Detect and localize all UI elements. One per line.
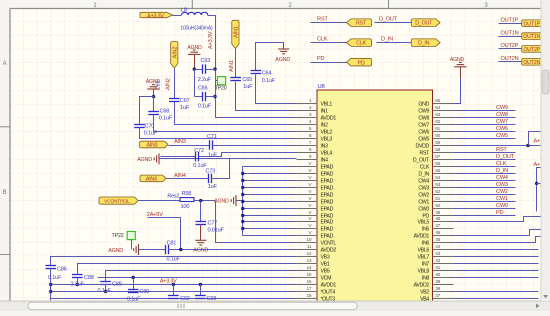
pin 45 IN6 (right) — [433, 242, 454, 244]
svg-text:VCM: VCM — [321, 276, 332, 282]
pin V EPAD (left) — [297, 187, 318, 189]
svg-text:D_IN: D_IN — [418, 41, 430, 47]
pin V EPAD (left) — [297, 173, 318, 175]
wire row 25 right — [454, 277, 539, 279]
capacitor C86 — [46, 266, 57, 269]
svg-text:VBL4: VBL4 — [321, 151, 333, 157]
pin 39 AVDD2 (right) — [433, 284, 454, 286]
svg-text:IN3: IN3 — [321, 144, 329, 150]
svg-text:CW5: CW5 — [418, 137, 429, 143]
svg-text:AVDD2: AVDD2 — [321, 248, 337, 254]
capacitor C68 — [148, 112, 159, 115]
wire left vertical C63-C66 — [194, 70, 196, 97]
pin 57 D_OUT (right) — [433, 159, 454, 161]
inductor L8 — [182, 12, 208, 15]
net flag AIN2 — [171, 42, 178, 69]
horizontal scrollbar right arrow — [536, 304, 540, 309]
svg-text:AIN1: AIN1 — [229, 60, 235, 72]
svg-text:IN5: IN5 — [422, 227, 430, 233]
svg-text:65: 65 — [435, 98, 440, 104]
svg-text:0.1uF: 0.1uF — [262, 78, 276, 84]
svg-text:18: 18 — [307, 293, 312, 299]
wire net CLK — [454, 166, 516, 168]
wire C63 row — [195, 69, 203, 71]
wire D_IN — [377, 42, 412, 44]
svg-text:D_IN: D_IN — [496, 168, 508, 174]
wire C67 to IN2 row — [175, 102, 297, 125]
node junction C86 col row17 — [49, 290, 52, 293]
port OUT1N — [522, 33, 546, 40]
capacitor C90 — [133, 278, 135, 290]
pin 41 VBL8 (right) — [433, 270, 454, 272]
svg-text:50: 50 — [435, 203, 440, 209]
wire CLK — [311, 42, 347, 44]
svg-text:57: 57 — [435, 154, 440, 160]
pin V EPAD (left) — [297, 194, 318, 196]
svg-text:55: 55 — [435, 168, 440, 174]
svg-text:100: 100 — [181, 204, 190, 210]
wire AGND node left — [140, 97, 154, 125]
node EPAD junction 3 — [241, 179, 244, 182]
wire net CW1 — [454, 201, 516, 203]
pin 63 CW8 (right) — [433, 117, 454, 119]
pin 46 AVDD1 (right) — [433, 235, 454, 237]
wire EPAD stub row 10 — [243, 228, 297, 230]
svg-text:PD: PD — [317, 56, 325, 62]
pin 38 VB2 (right) — [433, 291, 454, 293]
pin 2 IN1 (left) — [297, 110, 318, 112]
svg-text:OUT1P: OUT1P — [501, 17, 519, 23]
pin 49 PD (right) — [433, 215, 454, 217]
pin V EPAD (left) — [297, 215, 318, 217]
pin 60 CW5 (right) — [433, 138, 454, 140]
svg-text:VBL3: VBL3 — [321, 137, 333, 143]
wire PD — [311, 62, 347, 64]
capacitor C63 — [203, 64, 206, 73]
svg-text:EPAD: EPAD — [321, 234, 334, 240]
pin 11 AVDD2 (left) — [297, 249, 318, 251]
svg-text:VBL2: VBL2 — [321, 130, 333, 136]
svg-text:A: A — [3, 61, 7, 67]
wire C72 branch — [161, 156, 196, 158]
node junction R58/C77 — [199, 199, 202, 202]
svg-text:VCONTROL: VCONTROL — [104, 199, 130, 205]
port D_OUT — [411, 19, 440, 27]
svg-text:CLK: CLK — [317, 36, 328, 42]
wire AIN2 down to C67 — [174, 69, 176, 99]
wire OUT1N — [499, 36, 522, 38]
wire EPAD bus vertical — [242, 167, 244, 236]
svg-text:EPAD: EPAD — [321, 227, 334, 233]
wire net CW6 — [454, 131, 516, 133]
pin 50 CW0 (right) — [433, 208, 454, 210]
svg-text:C66: C66 — [198, 86, 208, 92]
svg-text:OUT2P: OUT2P — [523, 47, 540, 53]
svg-text:AGND: AGND — [108, 248, 123, 254]
svg-text:B: B — [3, 190, 7, 196]
pin 16 AVDD1 (left) — [297, 284, 318, 286]
capacitor C92 — [173, 285, 175, 296]
svg-text:VBL8: VBL8 — [418, 269, 430, 275]
pin 9 IN4 (left) — [297, 159, 318, 161]
svg-text:*OUT4: *OUT4 — [321, 290, 336, 296]
pin V EPAD (left) — [297, 201, 318, 203]
wire net CW2 — [454, 194, 516, 196]
svg-text:OUT2N: OUT2N — [501, 56, 519, 62]
wire net CW8 — [454, 117, 516, 119]
pin V EPAD (left) — [297, 166, 318, 168]
svg-text:52: 52 — [435, 189, 440, 195]
pin 51 CW1 (right) — [433, 201, 454, 203]
resistor R58 — [180, 198, 194, 202]
horizontal scrollbar thumb — [28, 302, 357, 309]
wire C68 to VBL2 row — [154, 115, 297, 132]
wire IN6-45 step — [454, 237, 541, 243]
svg-text:C67: C67 — [180, 98, 190, 104]
port D_IN — [411, 39, 440, 47]
pin 59 DVDD (right) — [433, 145, 454, 147]
pin V EPAD (left) — [297, 180, 318, 182]
svg-text:51: 51 — [435, 196, 440, 202]
svg-text:AIN3: AIN3 — [174, 139, 186, 145]
pin 6 VBL3 (left) — [297, 138, 318, 140]
pin V EPAD (left) — [297, 235, 318, 237]
pin 37 VB4 (right) — [433, 298, 454, 300]
wire row 23 right — [454, 263, 539, 265]
svg-text:63: 63 — [435, 112, 440, 118]
svg-text:IN6: IN6 — [422, 241, 430, 247]
node EPAD junction 10 — [241, 227, 244, 230]
svg-text:CLK: CLK — [496, 161, 507, 167]
wire AVDD1-46 step — [454, 230, 541, 236]
pin 4 IN2 (left) — [297, 124, 318, 126]
svg-text:OUT2N: OUT2N — [523, 60, 540, 66]
svg-text:GND: GND — [418, 102, 429, 108]
svg-text:38: 38 — [435, 286, 440, 292]
svg-text:16: 16 — [307, 279, 312, 285]
wire EPAD stub row 9 — [243, 221, 297, 223]
svg-text:CW1: CW1 — [418, 200, 429, 206]
wire C64 to VBL1 row — [256, 75, 297, 104]
wire AGND row9 to riser — [160, 158, 230, 160]
wire EPAD stub row 6 — [243, 201, 297, 203]
wire EPAD stub row 2 — [243, 173, 297, 175]
wire C66 row — [195, 96, 203, 98]
svg-text:AGND: AGND — [275, 57, 290, 63]
svg-text:RST: RST — [420, 151, 431, 157]
svg-text:VCNTL: VCNTL — [321, 241, 337, 247]
net flag AIN3 — [140, 141, 169, 148]
svg-text:1uF: 1uF — [243, 84, 253, 90]
pin 18 *OUT3 (left) — [297, 298, 318, 300]
svg-text:IN2: IN2 — [321, 123, 329, 129]
svg-text:AGND: AGND — [137, 157, 152, 163]
wire VB-row17 — [51, 291, 297, 293]
pin 13 VB1 (left) — [297, 263, 318, 265]
pin 61 CW6 (right) — [433, 131, 454, 133]
svg-text:EPAD: EPAD — [321, 193, 334, 199]
wire AIN1 down to C65 — [235, 49, 237, 78]
svg-text:VB3: VB3 — [321, 255, 330, 261]
wire C71 to IN3 pin — [213, 145, 297, 147]
wire VCM row — [98, 277, 297, 279]
svg-text:C63: C63 — [201, 58, 211, 64]
svg-text:39: 39 — [435, 279, 440, 285]
wire AGND stub to bus — [237, 200, 243, 202]
wire C73 riser to row9 — [213, 159, 230, 179]
svg-text:R58: R58 — [182, 191, 192, 197]
svg-text:0.1uF: 0.1uF — [159, 115, 173, 121]
svg-text:C64: C64 — [262, 71, 272, 77]
svg-text:1uF: 1uF — [208, 152, 218, 158]
wire net D_OUT — [454, 159, 516, 161]
wire VB1 row from C88 — [78, 264, 297, 275]
svg-text:11: 11 — [307, 244, 312, 250]
wire A+3.3V vertical to AVDD1 row — [216, 70, 297, 118]
wire row 24 right — [454, 270, 539, 272]
net flag AIN4 — [140, 175, 166, 182]
node EPAD junction 4 — [241, 186, 244, 189]
svg-text:54: 54 — [435, 175, 440, 181]
svg-text:IN4: IN4 — [321, 158, 329, 164]
pin 17 *OUT4 (left) — [297, 291, 318, 293]
svg-text:42: 42 — [435, 258, 440, 264]
svg-text:37: 37 — [435, 293, 440, 299]
node EPAD junction 2 — [241, 172, 244, 175]
svg-text:AIN2: AIN2 — [165, 78, 171, 90]
pin 62 CW7 (right) — [433, 124, 454, 126]
port OUT1P — [522, 20, 546, 27]
capacitor C71 — [210, 140, 213, 149]
svg-text:C68: C68 — [160, 109, 170, 115]
svg-text:58: 58 — [435, 147, 440, 153]
svg-text:AVDD1: AVDD1 — [321, 283, 337, 289]
wire EPAD stub row 3 — [243, 180, 297, 182]
svg-text:AIN2: AIN2 — [173, 47, 179, 59]
pin 42 IN7 (right) — [433, 263, 454, 265]
svg-text:13: 13 — [307, 258, 312, 264]
svg-text:53: 53 — [435, 182, 440, 188]
wire row18 — [51, 298, 297, 300]
svg-text:C86: C86 — [57, 267, 67, 273]
wire inductor to A+3.3V rail corner — [208, 16, 216, 70]
svg-text:D_OUT: D_OUT — [413, 158, 430, 164]
pin 54 CW4 (right) — [433, 180, 454, 182]
op-amp U8 (main IC body) — [317, 90, 433, 302]
wire AIN3 to C71 — [169, 145, 210, 147]
svg-text:12: 12 — [307, 251, 312, 257]
port OUT2P — [522, 46, 546, 53]
node EPAD junction 7 — [241, 207, 244, 210]
wire DVDD to A+1.8V — [454, 145, 550, 147]
wire net CW5 — [454, 138, 516, 140]
wire net D_IN — [454, 173, 516, 175]
svg-text:60: 60 — [435, 133, 440, 139]
svg-text:64: 64 — [435, 105, 440, 111]
wire row9 to IN4 pin — [230, 158, 297, 160]
pin 1 VBL1 (left) — [297, 103, 318, 105]
net flag VCONTROL — [99, 197, 138, 204]
pin 44 VBL6 (right) — [433, 249, 454, 251]
wire C64 top to AGND — [256, 43, 284, 71]
svg-text:DVDD: DVDD — [416, 144, 430, 150]
svg-text:CW8: CW8 — [496, 112, 508, 118]
wire R58 to AGND — [195, 200, 216, 202]
svg-text:0.1uF: 0.1uF — [167, 257, 181, 263]
wire net CW0 — [454, 208, 516, 210]
svg-text:14: 14 — [307, 265, 312, 271]
svg-text:D_OUT: D_OUT — [415, 21, 433, 27]
svg-text:AIN3: AIN3 — [147, 143, 158, 149]
wire net PD — [454, 215, 516, 217]
ground AGND below C77 — [200, 225, 202, 241]
wire AVDD1 row16 — [51, 284, 297, 286]
node junction C63 left — [193, 67, 196, 70]
svg-text:CLK: CLK — [420, 165, 430, 171]
pin 12 VB3 (left) — [297, 256, 318, 258]
svg-text:61: 61 — [435, 126, 440, 132]
wire EPAD stub row 8 — [243, 215, 297, 217]
vertical scrollbar thumb — [542, 70, 549, 94]
pin 14 VB5 (left) — [297, 270, 318, 272]
capacitor C93 — [200, 285, 202, 296]
svg-text:46: 46 — [435, 230, 440, 236]
capacitor C65 — [230, 78, 241, 81]
svg-text:15: 15 — [307, 272, 312, 278]
pin 47 IN5 (right) — [433, 228, 454, 230]
capacitor C72 — [196, 152, 199, 161]
node EPAD junction 5 — [241, 193, 244, 196]
wire VCONTROL to R58 — [139, 200, 181, 202]
wire row 22 right — [454, 256, 539, 258]
wire VB5 row from C89 — [106, 271, 297, 282]
pin 53 CW3 (right) — [433, 187, 454, 189]
wire C88 column bottom — [77, 278, 79, 285]
svg-text:OUT2P: OUT2P — [501, 43, 519, 49]
svg-text:VBL1: VBL1 — [321, 102, 333, 108]
svg-text:CW7: CW7 — [496, 119, 508, 125]
svg-text:CW6: CW6 — [418, 130, 429, 136]
capacitor C67 — [169, 99, 180, 102]
pin 56 CLK (right) — [433, 166, 454, 168]
node EPAD junction 8 — [241, 214, 244, 217]
wire AIN4 to C73 — [167, 178, 209, 180]
svg-text:IN1: IN1 — [321, 109, 329, 115]
svg-text:C72: C72 — [194, 148, 204, 154]
wire C77 branch down — [200, 201, 202, 222]
svg-text:CW3: CW3 — [418, 186, 429, 192]
wire net CW7 — [454, 124, 516, 126]
pin 3 AVDD1 (left) — [297, 117, 318, 119]
svg-text:CW0: CW0 — [496, 203, 508, 209]
svg-text:CW5: CW5 — [496, 133, 508, 139]
svg-text:EPAD: EPAD — [321, 200, 334, 206]
svg-text:0.1uF: 0.1uF — [198, 103, 212, 109]
svg-text:CW2: CW2 — [496, 189, 508, 195]
wire RST — [311, 22, 347, 24]
svg-text:VBL7: VBL7 — [418, 255, 430, 261]
svg-text:OUT1P: OUT1P — [523, 21, 540, 27]
pin 8 VBL4 (left) — [297, 152, 318, 154]
svg-text:IN8: IN8 — [422, 276, 430, 282]
svg-text:C65: C65 — [242, 77, 252, 83]
sheet frame border — [10, 8, 541, 10]
wire C70 to VBL3 row — [140, 128, 297, 139]
wire row 21 right — [454, 249, 539, 251]
wire net RST — [454, 152, 516, 154]
wire C86 column down — [50, 269, 52, 302]
pin 10 VCNTL (left) — [297, 242, 318, 244]
capacitor C73 — [209, 174, 212, 183]
svg-text:17: 17 — [307, 286, 312, 292]
bottom status/scrollbar bar — [0, 301, 550, 311]
svg-text:40: 40 — [435, 272, 440, 278]
svg-text:47: 47 — [435, 223, 440, 229]
node junction C93 top — [199, 283, 202, 286]
svg-text:AVDD1: AVDD1 — [321, 116, 337, 122]
node EPAD junction 9 — [241, 220, 244, 223]
wire C72 to VBL4 pin step — [199, 153, 297, 157]
node junction C92 top — [172, 283, 175, 286]
svg-text:CLK: CLK — [356, 41, 366, 47]
svg-text:A+3.3V: A+3.3V — [147, 13, 164, 19]
wire EPAD stub row 1 — [243, 166, 297, 168]
node junction C86 col row16 — [49, 283, 52, 286]
svg-text:59: 59 — [435, 140, 440, 146]
wire OUT2N — [499, 61, 522, 63]
wire OUT2P — [499, 48, 522, 50]
svg-text:CW9: CW9 — [418, 109, 429, 115]
svg-text:D_OUT: D_OUT — [496, 154, 515, 160]
capacitor C88 — [72, 275, 83, 278]
svg-text:AGND: AGND — [193, 248, 208, 254]
svg-text:CW8: CW8 — [418, 116, 429, 122]
capacitor C70 — [134, 125, 145, 128]
svg-text:1uF: 1uF — [180, 105, 190, 111]
svg-text:AIN1: AIN1 — [234, 26, 240, 38]
svg-text:EPAD: EPAD — [321, 186, 334, 192]
capacitor C81 — [166, 245, 169, 254]
wire D_OUT — [375, 22, 412, 24]
port OUT2N — [522, 59, 546, 66]
svg-text:VB1: VB1 — [321, 262, 330, 268]
pin 58 RST (right) — [433, 152, 454, 154]
svg-text:IN7: IN7 — [422, 262, 430, 268]
node junction 2A+5V — [179, 248, 182, 251]
svg-text:56: 56 — [435, 161, 440, 167]
svg-text:CW4: CW4 — [496, 175, 508, 181]
capacitor C89 — [100, 282, 111, 285]
wire EPAD stub row 11 — [243, 235, 297, 237]
svg-text:VB5: VB5 — [321, 269, 330, 275]
svg-text:VBL6: VBL6 — [418, 248, 430, 254]
wire down to C68 — [153, 97, 155, 112]
svg-text:A+3.3V: A+3.3V — [208, 31, 214, 49]
node junction C68 top — [152, 95, 155, 98]
port RST — [347, 19, 372, 27]
svg-text:41: 41 — [435, 265, 440, 271]
svg-text:RST: RST — [356, 21, 367, 27]
pin V EPAD (left) — [297, 208, 318, 210]
svg-text:TP20: TP20 — [215, 85, 227, 91]
wire C81 to AVDD2 pin — [169, 249, 297, 251]
test point TP20 — [216, 80, 218, 82]
wire flag to inductor — [173, 15, 182, 17]
vertical scrollbar bottom arrow — [543, 295, 548, 299]
wire TP22 down — [131, 240, 133, 250]
svg-text:EPAD: EPAD — [321, 220, 334, 226]
svg-text:CW0: CW0 — [418, 207, 429, 213]
